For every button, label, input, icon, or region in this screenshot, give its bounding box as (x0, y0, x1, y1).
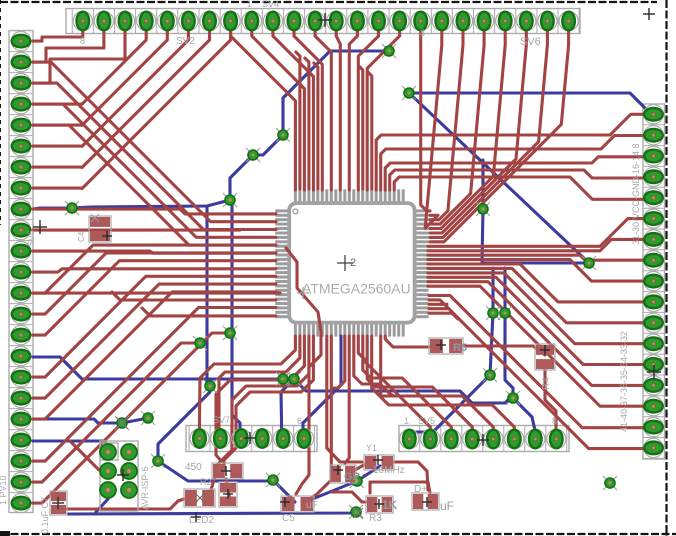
svg-text:1 PV10: 1 PV10 (0, 475, 8, 505)
svg-text:R3: R3 (369, 513, 382, 524)
svg-text:D+: D+ (414, 484, 427, 495)
svg-text:16MHz: 16MHz (373, 465, 405, 476)
svg-text:uF: uF (306, 500, 318, 511)
svg-text:SV5: SV5 (418, 416, 435, 426)
svg-text:1K: 1K (382, 498, 398, 512)
svg-text:41-40-37-36-35-34-33-32: 41-40-37-36-35-34-33-32 (619, 331, 629, 432)
svg-text:1: 1 (247, 0, 252, 9)
svg-text:GP: GP (344, 471, 360, 483)
svg-text:C4: C4 (77, 231, 86, 242)
svg-text:SV7: SV7 (213, 415, 230, 425)
svg-text:C5: C5 (282, 513, 295, 524)
svg-text:8: 8 (420, 28, 425, 38)
svg-text:450: 450 (185, 462, 202, 473)
svg-text:SV6: SV6 (26, 230, 36, 247)
svg-text:6: 6 (297, 416, 302, 426)
svg-text:SV4: SV4 (262, 0, 279, 9)
svg-text:R5: R5 (453, 342, 467, 354)
svg-text:uF: uF (440, 499, 454, 513)
svg-text:ATMEGA2560AU: ATMEGA2560AU (302, 281, 411, 297)
svg-text:Y1: Y1 (366, 443, 377, 453)
svg-text:2: 2 (350, 257, 356, 269)
svg-text:SV6: SV6 (520, 36, 541, 48)
svg-text:AVR-ISP-6: AVR-ISP-6 (140, 467, 150, 510)
svg-text:8: 8 (80, 36, 85, 46)
svg-text:R2: R2 (200, 477, 212, 487)
svg-text:8: 8 (552, 416, 557, 426)
svg-text:1: 1 (404, 416, 409, 426)
svg-text:SV2: SV2 (176, 36, 195, 47)
svg-text:0.1uF C7: 0.1uF C7 (40, 497, 50, 534)
svg-text:31-30-VCC-GND-16-14 8: 31-30-VCC-GND-16-14 8 (631, 143, 641, 245)
svg-text:R4: R4 (541, 377, 552, 390)
